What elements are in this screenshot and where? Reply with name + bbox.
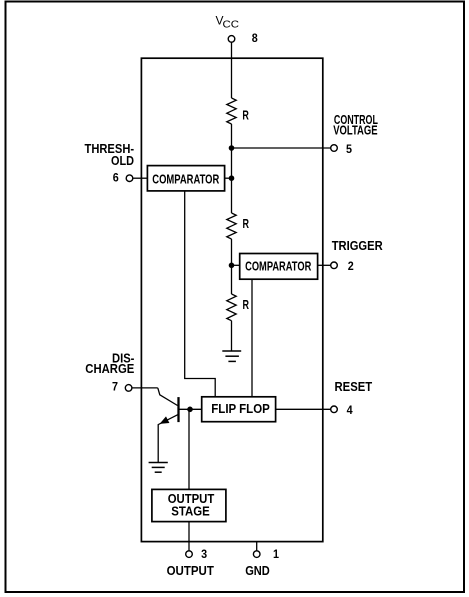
resistor R3 [227, 294, 236, 321]
wire VCC stem [231, 42, 233, 98]
svg-text:CC: CC [223, 19, 240, 31]
label DISCHARGE [85, 352, 134, 377]
wire collector of Q1 [158, 388, 178, 406]
pin 8 terminal [228, 36, 235, 43]
flip flop box [202, 397, 276, 422]
node trigger junction [229, 263, 235, 269]
pin 6 terminal [126, 175, 133, 182]
wire pin1 stem [256, 542, 258, 551]
wire output stage to pin3 [188, 522, 190, 551]
wire rail R2 to R3 [231, 239, 233, 294]
wire comparator2 to pin2 [318, 264, 331, 266]
wire control voltage [232, 147, 331, 149]
wire base to flip flop [179, 408, 202, 410]
node comparator1 reference junction [229, 175, 235, 181]
wire junction to output stage [188, 409, 190, 489]
wire rail R1 to R2 [231, 124, 233, 213]
svg-text:R: R [243, 217, 250, 231]
svg-text:4: 4 [347, 403, 353, 417]
svg-text:R: R [242, 108, 249, 122]
svg-text:6: 6 [113, 171, 119, 185]
transistor Q1 base bar [177, 397, 179, 422]
ground (voltage divider) [222, 351, 241, 361]
label THRESHOLD [85, 142, 135, 168]
svg-text:1: 1 [273, 547, 279, 561]
node base junction [187, 407, 193, 413]
pin 7 terminal [125, 385, 132, 392]
svg-text:FLIP FLOP: FLIP FLOP [211, 402, 269, 416]
svg-text:COMPARATOR: COMPARATOR [245, 260, 311, 274]
svg-text:STAGE: STAGE [171, 504, 210, 518]
transistor Q1 emitter [158, 414, 178, 462]
svg-text:8: 8 [252, 31, 258, 45]
pin 1 terminal [253, 551, 260, 558]
output stage box [152, 489, 226, 521]
wire comparator1 output to flip flop [185, 191, 216, 397]
pin 3 terminal [186, 551, 193, 558]
wire comparator1 to rail [225, 177, 232, 179]
label VCC [216, 14, 240, 31]
wire comparator2 output to flip flop [251, 279, 253, 397]
wire flip flop to pin4 [276, 408, 331, 410]
svg-text:TRIGGER: TRIGGER [332, 239, 383, 253]
pin 5 terminal [331, 145, 338, 152]
svg-text:3: 3 [201, 547, 207, 561]
svg-text:RESET: RESET [335, 380, 373, 394]
pin 2 terminal [331, 262, 338, 269]
node control voltage junction [229, 145, 235, 151]
resistor R1 [227, 98, 236, 124]
svg-text:VOLTAGE: VOLTAGE [333, 123, 377, 137]
pin 4 terminal [331, 406, 338, 413]
ground (emitter) [149, 463, 168, 473]
svg-text:CHARGE: CHARGE [85, 362, 134, 376]
op-amp comparator 2 (trigger) [240, 254, 318, 280]
IC boundary rectangle [141, 58, 322, 541]
wire pin6 to comparator [133, 177, 148, 179]
svg-text:5: 5 [346, 142, 352, 156]
svg-text:2: 2 [348, 259, 354, 273]
op-amp comparator 1 (threshold) [147, 166, 224, 191]
svg-text:7: 7 [112, 380, 118, 394]
svg-text:OUTPUT: OUTPUT [167, 564, 215, 578]
wire pin7 horizontal [132, 387, 158, 389]
svg-text:OLD: OLD [111, 154, 134, 168]
svg-text:GND: GND [245, 564, 270, 578]
svg-text:R: R [243, 298, 250, 312]
label CONTROL VOLTAGE [333, 113, 378, 138]
transistor Q1 emitter arrow [160, 416, 170, 424]
resistor R2 [227, 213, 236, 239]
wire rail to comparator2 [232, 264, 240, 266]
svg-text:COMPARATOR: COMPARATOR [152, 172, 219, 186]
wire R3 to ground [231, 321, 233, 351]
